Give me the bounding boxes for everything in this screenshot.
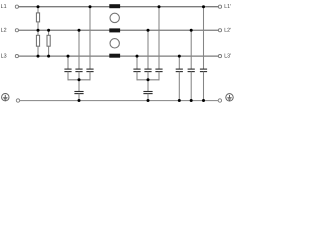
terminal L1 in xyxy=(15,5,18,8)
node L1-C11 xyxy=(202,5,205,8)
wire star join right xyxy=(137,79,160,81)
node L3-R3 xyxy=(47,55,50,58)
choke winding L3 xyxy=(109,54,120,58)
capacitor C8 xyxy=(143,92,152,94)
choke winding L1 xyxy=(109,4,120,8)
node L3-C1 xyxy=(67,55,70,58)
wire C5 bottom xyxy=(147,72,149,80)
terminal L3' out xyxy=(218,55,221,58)
wire L2 xyxy=(19,29,219,31)
label L3 xyxy=(1,53,6,57)
capacitor C3 xyxy=(86,69,93,72)
label L2 xyxy=(1,28,6,32)
choke core circle 2 xyxy=(110,39,119,48)
wire Y-cap left bottom xyxy=(78,94,80,101)
resistor R3 xyxy=(47,35,50,46)
capacitor C10 xyxy=(188,69,195,72)
capacitor C11 xyxy=(200,69,207,72)
wire C10 drop from L2 xyxy=(190,30,192,69)
node PE-C8 xyxy=(147,99,150,102)
node L1-R1 xyxy=(37,5,40,8)
wire R2 bottom xyxy=(37,46,39,56)
wire C10 bottom xyxy=(190,72,192,101)
wire R2 top xyxy=(37,30,39,35)
choke core circle 1 xyxy=(110,13,119,22)
wire Y-cap right top xyxy=(147,80,149,92)
wire PE bus xyxy=(20,100,218,102)
capacitor C5 xyxy=(144,69,151,72)
resistor R1 xyxy=(36,13,39,22)
wire C1 bottom xyxy=(67,72,69,81)
wire L1 xyxy=(19,6,219,8)
wire C6 drop from L1 xyxy=(158,7,160,69)
node L2-C10 xyxy=(190,29,193,32)
terminal L3 in xyxy=(15,55,18,58)
node star left xyxy=(78,78,81,81)
terminal PE out xyxy=(218,99,221,102)
wire C11 bottom xyxy=(203,72,205,101)
wire C9 drop from L3 xyxy=(178,56,180,69)
node L2-R1R2 xyxy=(37,29,40,32)
label L1' xyxy=(225,4,231,8)
terminal L2 in xyxy=(15,29,18,32)
wire R1 top xyxy=(37,7,39,13)
PE symbol left xyxy=(2,94,9,101)
label L3' xyxy=(225,53,231,57)
wire C1 drop from L3 xyxy=(67,56,69,69)
terminal L2' out xyxy=(218,29,221,32)
wire C6 bottom xyxy=(158,72,160,81)
wire C3 bottom xyxy=(89,72,91,81)
wire C4 drop from L3 xyxy=(136,56,138,69)
wire C2 drop from L2 xyxy=(78,30,80,69)
node L2-C2 xyxy=(78,29,81,32)
terminal PE in xyxy=(16,99,19,102)
capacitor C2 xyxy=(75,69,82,72)
wire Y-cap left top xyxy=(78,80,80,92)
node L3-R2 xyxy=(37,55,40,58)
capacitor C9 xyxy=(176,69,183,72)
wire C4 bottom xyxy=(136,72,138,81)
label L2' xyxy=(225,28,231,32)
wire C9 bottom xyxy=(178,72,180,101)
wire C11 drop from L1 xyxy=(203,7,205,69)
node L2-R3 xyxy=(47,29,50,32)
terminal L1' out xyxy=(218,5,221,8)
node star right xyxy=(147,78,150,81)
wire C5 drop from L2 xyxy=(147,30,149,69)
wire star join left xyxy=(68,79,91,81)
resistor R2 xyxy=(36,35,39,46)
node PE-C11 xyxy=(202,99,205,102)
wire R3 bottom xyxy=(48,46,50,56)
node PE-C9 xyxy=(178,99,181,102)
capacitor C1 xyxy=(64,69,71,72)
wire Y-cap right bottom xyxy=(147,94,149,101)
capacitor C4 xyxy=(133,69,140,72)
capacitor C7 xyxy=(74,92,83,94)
wire R3 top xyxy=(48,30,50,35)
wire L3 xyxy=(19,55,219,57)
wire R1 bottom xyxy=(37,22,39,31)
node L3-C9 xyxy=(178,55,181,58)
node L1-C6 xyxy=(158,5,161,8)
PE symbol right xyxy=(226,94,233,101)
node PE-C7 xyxy=(78,99,81,102)
choke winding L2 xyxy=(109,28,120,32)
node L1-C3 xyxy=(89,5,92,8)
wire C3 drop from L1 xyxy=(89,7,91,69)
wire C2 bottom xyxy=(78,72,80,80)
capacitor C6 xyxy=(155,69,162,72)
label L1 xyxy=(1,4,6,8)
node L3-C4 xyxy=(136,55,139,58)
node L2-C5 xyxy=(147,29,150,32)
node PE-C10 xyxy=(190,99,193,102)
